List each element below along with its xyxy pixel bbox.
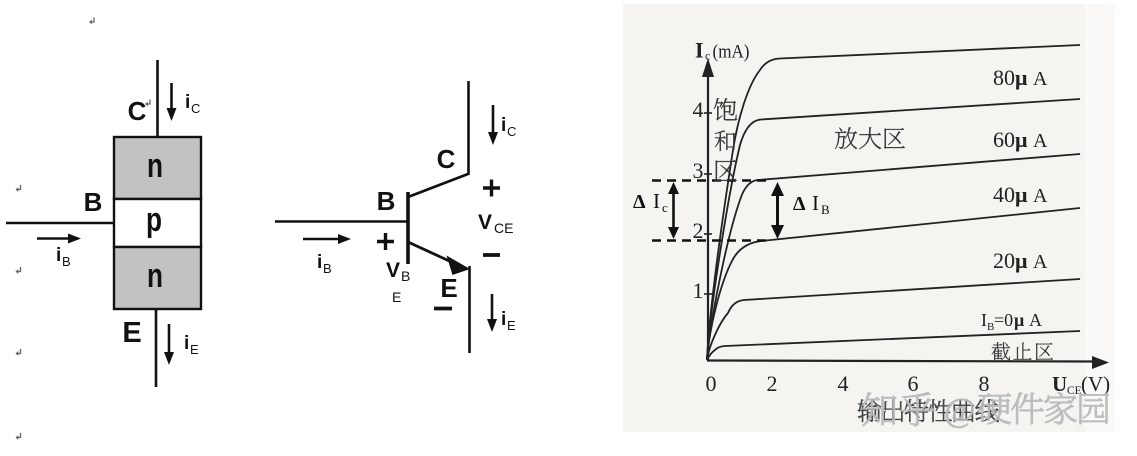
svg-text:i: i — [184, 333, 189, 354]
svg-text:μ: μ — [1014, 310, 1024, 330]
y tick 2 — [704, 233, 712, 235]
paragraph return mark — [16, 185, 21, 192]
current arrow iC (middle) — [492, 105, 495, 136]
plus sign VBE — [377, 233, 394, 250]
svg-text:i: i — [501, 115, 506, 136]
svg-text:A: A — [1033, 130, 1048, 152]
current arrow iE (middle) — [491, 294, 494, 323]
curve IB=60uA — [707, 154, 1080, 360]
svg-text:A: A — [1033, 68, 1048, 90]
svg-text:I: I — [812, 191, 819, 215]
svg-text:B: B — [401, 268, 410, 284]
svg-text:E: E — [392, 289, 401, 305]
curve IB=100uA (top) — [707, 45, 1080, 360]
minus sign VBE — [434, 307, 452, 311]
current arrow iB (middle) — [303, 238, 343, 241]
svg-text:n: n — [147, 147, 163, 185]
wire base (left) — [275, 220, 408, 223]
transistor Q2 symbol: base bar — [406, 192, 410, 264]
svg-text:Δ: Δ — [793, 193, 806, 215]
svg-text:E: E — [440, 273, 457, 303]
svg-text:B: B — [323, 261, 332, 276]
paragraph return mark — [16, 267, 21, 274]
svg-text:C: C — [128, 96, 147, 126]
svg-text:A: A — [1029, 310, 1042, 330]
curve IB=80uA — [707, 99, 1080, 360]
y axis Ic — [707, 72, 709, 361]
svg-text:A: A — [1033, 185, 1048, 207]
base p region — [114, 199, 201, 247]
emitter n region — [114, 247, 201, 309]
dashed line Ic=3mA — [652, 179, 768, 182]
svg-text:40: 40 — [993, 182, 1015, 207]
wire emitter vertical — [468, 266, 471, 353]
svg-text:p: p — [146, 201, 162, 239]
svg-text:20: 20 — [993, 248, 1015, 273]
svg-text:C: C — [437, 144, 456, 174]
svg-text:I: I — [653, 189, 660, 213]
svg-text:E: E — [122, 317, 141, 349]
svg-text:E: E — [507, 318, 516, 333]
svg-text:i: i — [317, 252, 322, 273]
svg-text:(mA): (mA) — [713, 42, 750, 63]
svg-text:B: B — [62, 254, 71, 269]
svg-text:V: V — [478, 211, 492, 234]
region label amplification (fang da qu) — [835, 127, 905, 149]
wire collector lead (top) — [156, 60, 159, 137]
svg-text:μ: μ — [1015, 248, 1028, 273]
collector diagonal — [408, 174, 468, 197]
paragraph return mark — [145, 100, 150, 107]
y tick 3 — [704, 173, 712, 175]
x axis Uce — [707, 361, 1096, 362]
svg-text:i: i — [501, 309, 506, 330]
svg-text:CE: CE — [494, 220, 513, 236]
wire base lead (left) — [6, 222, 114, 225]
svg-text:(V): (V) — [1081, 372, 1110, 396]
dashed line Ic=2mA — [652, 239, 770, 242]
minus sign VCE — [483, 253, 500, 257]
current arrow iC (down) — [170, 83, 173, 112]
svg-text:c: c — [662, 200, 668, 215]
paragraph return mark — [16, 349, 21, 356]
svg-text:60: 60 — [993, 127, 1015, 152]
y tick 1 — [704, 293, 712, 295]
svg-text:μ: μ — [1015, 182, 1028, 207]
svg-text:B: B — [821, 202, 830, 217]
svg-text:μ: μ — [1015, 65, 1028, 90]
svg-text:80: 80 — [993, 65, 1015, 90]
transistor Q1 npn structure: collector n region — [114, 137, 201, 199]
scanned chart background — [623, 4, 1093, 432]
svg-text:V: V — [386, 259, 400, 282]
current arrow iE (down) — [168, 324, 171, 356]
delta Ic double arrow — [672, 189, 675, 232]
curve IB=20uA — [707, 279, 1080, 360]
svg-text:μ: μ — [1015, 127, 1028, 152]
paragraph return mark — [16, 433, 21, 440]
svg-text:C: C — [191, 101, 200, 116]
svg-text:E: E — [190, 342, 199, 357]
wire emitter lead (bottom) — [155, 309, 158, 387]
svg-text:I: I — [695, 38, 704, 63]
svg-text:4: 4 — [838, 371, 849, 396]
svg-text:8: 8 — [979, 371, 990, 396]
svg-text:B: B — [84, 187, 103, 217]
wire collector vertical — [467, 81, 470, 175]
svg-text:6: 6 — [908, 371, 919, 396]
watermark zhihu @yingjian jiayuan — [863, 392, 1109, 429]
svg-text:4: 4 — [693, 97, 704, 122]
svg-text:2: 2 — [767, 371, 778, 396]
curve IB=0uA — [707, 331, 1080, 360]
y tick 4 — [704, 112, 712, 114]
svg-text:A: A — [1033, 251, 1048, 273]
svg-text:Δ: Δ — [633, 191, 646, 213]
plus sign VCE — [483, 180, 500, 197]
svg-text:1: 1 — [693, 278, 704, 303]
region label saturation (bao he qu, vertical) — [714, 98, 737, 181]
svg-text:i: i — [56, 245, 61, 266]
emitter diagonal with arrow — [408, 242, 458, 265]
region label cutoff (jie zhi qu) — [992, 342, 1053, 360]
svg-text:0: 0 — [706, 371, 717, 396]
current arrow iB (right) — [37, 237, 73, 240]
svg-text:i: i — [185, 92, 190, 113]
svg-text:=0: =0 — [994, 310, 1013, 330]
curve IB=40uA — [707, 208, 1080, 360]
svg-text:n: n — [147, 257, 163, 295]
figure caption: output characteristic curves — [858, 399, 999, 422]
svg-text:C: C — [507, 124, 516, 139]
delta IB double arrow — [776, 190, 779, 231]
paragraph return mark — [89, 18, 94, 25]
svg-text:B: B — [377, 186, 396, 216]
svg-text:c: c — [705, 49, 710, 63]
svg-text:@: @ — [944, 392, 975, 429]
